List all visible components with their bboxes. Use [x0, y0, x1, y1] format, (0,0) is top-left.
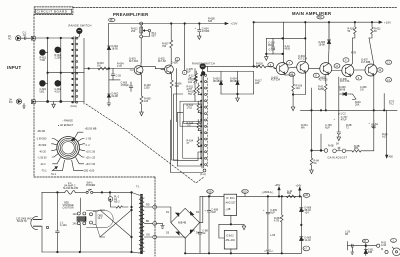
svg-text:890: 890 [287, 192, 292, 195]
svg-text:4.7B: 4.7B [274, 219, 279, 222]
resistor R612 [197, 102, 199, 113]
input jack J1 [16, 36, 21, 41]
zener D609 [300, 237, 304, 241]
spare terminal [46, 226, 48, 228]
AC plug [31, 216, 38, 229]
gate network wire [84, 68, 134, 70]
diode D605 [327, 22, 330, 48]
svg-text:4935: 4935 [285, 47, 291, 50]
zener D602 [107, 69, 110, 97]
svg-text:BK: BK [146, 220, 150, 223]
svg-text:PREAMPLIFIER: PREAMPLIFIER [113, 12, 149, 17]
svg-text:NE-2: NE-2 [114, 200, 120, 203]
meter circuit node 6 [362, 239, 368, 243]
svg-text:14: 14 [387, 79, 390, 82]
svg-text:7.5M: 7.5M [40, 59, 45, 62]
wire mid tie [48, 72, 84, 74]
wire TP1 to Q601 collector [140, 38, 142, 63]
node on board edge [31, 36, 35, 40]
svg-text:18-95: 18-95 [112, 47, 119, 50]
capacitor C601 can [40, 80, 46, 86]
wire input to switch [35, 37, 74, 39]
svg-text:NLP: NLP [270, 211, 275, 214]
resistor R623 [346, 150, 366, 153]
svg-text:9: 9 [358, 77, 360, 80]
circled 12 [377, 68, 383, 72]
svg-text:12: 12 [378, 69, 381, 72]
circled 8 [313, 73, 319, 77]
pilot lamp PL1 [108, 197, 113, 202]
svg-text:+: + [334, 118, 336, 121]
circled 14 [386, 78, 392, 82]
svg-text:RD: RD [146, 204, 150, 207]
switch S601 [351, 94, 356, 100]
svg-text:20K: 20K [355, 103, 360, 106]
selector enclosure [87, 210, 114, 227]
IC601 regulator [224, 194, 237, 215]
svg-text:+18V: +18V [384, 20, 391, 24]
rotary wiper arrow [52, 167, 58, 171]
svg-text:12-02: 12-02 [305, 239, 312, 242]
selector jumper box [90, 213, 93, 216]
circled 10 [289, 72, 295, 76]
svg-text:848: 848 [256, 65, 261, 68]
arrow +18V [379, 21, 382, 23]
shield box 2 [180, 101, 201, 126]
trim pot TP1 top node [140, 22, 143, 25]
svg-text:-4B 4M: -4B 4M [37, 130, 45, 133]
node on board edge [31, 100, 35, 104]
rotary spokes right [78, 139, 85, 142]
transistor Q604 [297, 61, 309, 73]
svg-text:11: 11 [335, 65, 338, 68]
circled 3 [268, 63, 274, 67]
svg-text:47UF: 47UF [341, 118, 347, 121]
capacitor C602 can [55, 80, 61, 86]
circled 2 [343, 58, 349, 62]
ground below C604 [198, 33, 202, 40]
meter M [393, 248, 400, 256]
node T60 circled [317, 15, 324, 19]
svg-text:+7: +7 [304, 248, 307, 251]
svg-text:60B-4B: 60B-4B [178, 222, 187, 225]
transistor Q603 [276, 63, 288, 75]
resistor R618 to Q603 base [256, 65, 276, 69]
svg-text:-1.99 500: -1.99 500 [36, 138, 47, 141]
transformer T1 primary [138, 195, 140, 253]
transformer core [140, 194, 143, 254]
resistor R615 [195, 71, 197, 83]
transistor Q605 [320, 63, 332, 75]
secondary taps [144, 207, 152, 237]
ground Q603 emitter [291, 95, 295, 111]
wire Q604 emitter join [293, 74, 305, 95]
IC602 regulator [224, 230, 237, 249]
svg-text:CAUTION: CAUTION [63, 206, 74, 209]
svg-text:1200: 1200 [144, 86, 150, 89]
capacitor C607 [198, 196, 202, 253]
svg-text:M: M [381, 248, 383, 251]
meter feed wire [348, 245, 377, 247]
wire wafer2 to R618 [205, 65, 256, 67]
svg-text:UB2: UB2 [40, 91, 45, 94]
resistor R613 [197, 120, 199, 131]
wire rail to Q603 collector [283, 22, 285, 63]
svg-text:+20: +20 [242, 190, 247, 193]
svg-text:CN: CN [360, 88, 364, 91]
svg-text:10A: 10A [296, 87, 301, 90]
svg-text:A50: A50 [389, 156, 394, 159]
svg-text:BIAS: BIAS [268, 44, 274, 47]
svg-text:200 +100: 200 +100 [84, 170, 95, 173]
capacitor C710 [372, 120, 376, 128]
node 2 circled [391, 239, 397, 243]
circled 7 [287, 61, 293, 65]
svg-text:2 .2: 2 .2 [86, 144, 91, 147]
node +7 circled [303, 246, 310, 251]
svg-text:R-6B: R-6B [328, 145, 334, 148]
svg-text:-50 600: -50 600 [38, 144, 47, 147]
svg-text:2: 2 [345, 59, 347, 62]
ground bias [265, 54, 269, 61]
+26 rail [200, 195, 301, 197]
capacitor C604 [198, 24, 202, 32]
svg-text:+: + [205, 210, 207, 213]
transistor Q602 [165, 65, 174, 74]
bridge + output riser [200, 196, 203, 222]
bottom AC wire [42, 251, 132, 253]
svg-text:+24: +24 [305, 212, 310, 215]
resistor R625 + ground [310, 151, 314, 174]
divider chain wire [175, 69, 177, 122]
crossover X wires [93, 214, 98, 222]
wire J2 to switch column [35, 101, 84, 103]
resistor R1 lamp [111, 202, 125, 205]
resistor R607 [170, 24, 173, 64]
switch contact column A [74, 37, 75, 104]
node +20 circled [244, 194, 246, 197]
capacitor C603 [129, 82, 133, 92]
bias sub network [266, 38, 305, 54]
switch SW1 POWER [86, 191, 88, 193]
svg-text:C-10A: C-10A [60, 224, 67, 227]
svg-text:1762: 1762 [187, 106, 193, 109]
knob pointer [71, 138, 75, 141]
svg-text:AAC-517: AAC-517 [226, 202, 237, 205]
input jack J2 [16, 99, 21, 104]
svg-text:4B: 4B [345, 233, 348, 236]
resistor R601 can [40, 50, 46, 56]
svg-text:-40 2: -40 2 [40, 163, 46, 166]
switch wafer SW2-A [77, 28, 83, 34]
gain pot terminal circles [324, 149, 328, 153]
svg-text:△A609-A△: △A609-A△ [262, 191, 274, 194]
svg-text:CIRCUIT BOARD: CIRCUIT BOARD [37, 10, 68, 14]
zener column [300, 196, 302, 253]
diode D601 bias [107, 24, 110, 69]
trim pot TP1 [140, 35, 143, 38]
svg-text:98K: 98K [354, 147, 359, 150]
svg-text:1700pF: 1700pF [121, 84, 130, 87]
svg-text:C-03: C-03 [116, 75, 122, 78]
svg-text:△A611△: △A611△ [264, 250, 273, 253]
svg-text:POWER: POWER [86, 184, 95, 187]
wire Q601 to Q602 [141, 66, 165, 68]
rotary spokes left [52, 139, 59, 142]
arrow +20V [225, 22, 228, 24]
resistor R605 [140, 75, 143, 112]
wire vertical C-divider left [47, 38, 49, 102]
svg-text:SLOW-BLOW: SLOW-BLOW [63, 187, 79, 190]
capacitor C609 [266, 196, 270, 253]
bridge - output drop [184, 238, 186, 253]
diode D-M [364, 246, 367, 256]
svg-text:417-134: 417-134 [271, 79, 281, 82]
ladder tie wires [198, 94, 201, 146]
+24V arrow [299, 187, 301, 196]
svg-text:A-52: A-52 [381, 244, 387, 247]
svg-text:IC602: IC602 [226, 234, 234, 238]
svg-text:NLP: NLP [325, 126, 330, 129]
preamp supply rail [109, 23, 228, 25]
svg-text:T6.2: T6.2 [389, 102, 395, 105]
switch contact column B [202, 73, 203, 168]
resistor R614 [197, 137, 199, 147]
svg-text:18-98: 18-98 [319, 43, 326, 46]
transformer T1 secondary [142, 198, 144, 251]
svg-text:+: + [195, 27, 197, 30]
IC601 ground wire [231, 223, 244, 225]
svg-text:+26: +26 [207, 190, 212, 193]
svg-text:+: + [263, 209, 265, 212]
feedback line down to ladder [172, 94, 178, 160]
ground C707 [337, 137, 341, 141]
svg-text:12.7: 12.7 [98, 217, 103, 220]
svg-text:300: 300 [175, 85, 180, 88]
svg-text:C-606: C-606 [171, 62, 178, 65]
svg-text:8: 8 [315, 74, 317, 77]
bridge rectifier D-B1 [171, 208, 200, 238]
circled 9 [356, 76, 362, 80]
voltage selector plug [77, 212, 80, 215]
svg-text:13: 13 [387, 61, 390, 64]
svg-text:2: 2 [393, 239, 395, 242]
rail junction dots [170, 23, 172, 25]
svg-text:25K: 25K [131, 30, 136, 33]
capacitor C707 [337, 110, 341, 137]
svg-text:● AF EFFECT: ● AF EFFECT [58, 124, 74, 127]
svg-text:AC: AC [8, 38, 12, 41]
ground rail bottom [185, 252, 301, 254]
svg-text:470MF: 470MF [202, 30, 210, 33]
svg-text:L-65: L-65 [270, 234, 276, 237]
diode pair loop D603 D604 [208, 66, 254, 71]
svg-text:(C.A): (C.A) [200, 173, 206, 176]
svg-text:INPUT: INPUT [7, 65, 21, 70]
svg-text:+26: +26 [304, 194, 309, 197]
rotary switch SW2 body [57, 137, 80, 160]
svg-text:1 -50: 1 -50 [86, 138, 92, 141]
svg-text:+50.93 MB: +50.93 MB [85, 128, 97, 131]
svg-text:T60: T60 [318, 16, 323, 19]
svg-text:+10 1.50: +10 1.50 [86, 150, 96, 153]
wire top to transformer [110, 192, 132, 252]
circled 11 [334, 64, 340, 68]
svg-text:417-68B: 417-68B [361, 61, 371, 64]
output arrow [386, 110, 388, 158]
IC602 pins [219, 224, 231, 253]
wire Q604 collector up [304, 22, 306, 61]
svg-text:1UF: 1UF [186, 70, 191, 73]
resistor R630 [287, 195, 296, 198]
resistor R621 [369, 22, 373, 38]
wire plug to fuse riser [41, 192, 43, 252]
IC601 pins [230, 216, 232, 225]
+25V arrow [278, 187, 280, 197]
svg-text:+20V: +20V [231, 22, 238, 26]
svg-text:T-1: T-1 [136, 186, 140, 189]
svg-text:98-98: 98-98 [230, 80, 237, 83]
transistor Q607 [365, 64, 377, 76]
svg-text:A5L-404: A5L-404 [226, 239, 236, 242]
switch wafer SW2-B [200, 64, 206, 70]
selector feed [79, 198, 81, 252]
wire 4.7 node [357, 23, 359, 52]
node +26 circled [209, 194, 211, 197]
rotary labels left [36, 130, 47, 172]
svg-text:6A6B: 6A6B [318, 88, 324, 91]
main bottom bus [301, 109, 398, 111]
svg-text:7: 7 [289, 62, 291, 65]
svg-text:D1: D1 [166, 211, 170, 214]
zener D608 [300, 208, 304, 212]
ground Q601 emitter [140, 112, 144, 116]
svg-text:1M: 1M [97, 64, 100, 67]
ground diode loop [236, 94, 240, 102]
capacitor C605 branch [184, 24, 186, 71]
node +26b circled [303, 193, 310, 197]
node T5 circled [109, 18, 115, 21]
svg-text:-1.50 50: -1.50 50 [38, 156, 48, 159]
top AC wire [42, 191, 65, 193]
connector circle [377, 244, 380, 247]
verticals to bus [312, 76, 387, 110]
capacitor C2 line filter [56, 192, 60, 252]
svg-text:4.5U: 4.5U [55, 91, 60, 94]
node CA0 [203, 169, 206, 172]
capacitor C-103 [111, 69, 114, 80]
svg-text:SET: SET [151, 34, 156, 37]
svg-text:C-104: C-104 [269, 48, 276, 51]
svg-text:240: 240 [73, 223, 78, 226]
svg-text:RANGE SWITCH: RANGE SWITCH [69, 24, 92, 28]
svg-text:+63 7.00: +63 7.00 [86, 163, 96, 166]
svg-text:+20 +.20: +20 +.20 [86, 156, 96, 159]
svg-text:2.25M: 2.25M [55, 57, 62, 60]
svg-text:5A: 5A [336, 143, 339, 146]
svg-text:98-98: 98-98 [213, 80, 220, 83]
AC to bridge [157, 207, 171, 223]
rail drop to base wire [253, 22, 255, 66]
svg-text:D3: D3 [166, 232, 170, 235]
resistor R634 [280, 196, 283, 253]
svg-text:417-235: 417-235 [319, 79, 329, 82]
rotary labels right [84, 128, 97, 173]
svg-text:GAIN ADJUST: GAIN ADJUST [328, 156, 348, 160]
svg-text:A17: A17 [382, 135, 387, 138]
wire vertical C-divider right [60, 38, 62, 102]
svg-text:6F7-68: 6F7-68 [158, 60, 166, 63]
svg-text:417-T3A: 417-T3A [340, 80, 350, 83]
transistor Q601 [134, 66, 143, 75]
svg-text:6F7-602: 6F7-602 [129, 60, 139, 63]
emitter resistor R619 [285, 75, 294, 95]
shield box 3 [183, 122, 201, 159]
svg-text:+25V: +25V [275, 184, 281, 187]
connector pins on board edge [153, 205, 157, 209]
ground at J2 [23, 104, 26, 109]
capacitor C608 [207, 196, 211, 253]
circled 13 [386, 60, 392, 64]
svg-text:18K: 18K [255, 82, 260, 85]
transistor Q606 [342, 65, 354, 77]
svg-text:MA: MA [301, 126, 305, 129]
resistor R603 [98, 67, 108, 70]
svg-text:790: 790 [162, 45, 167, 48]
svg-text:-40 20: -40 20 [39, 150, 47, 153]
svg-text:4.7K: 4.7K [117, 65, 122, 68]
svg-text:62-98: 62-98 [112, 95, 119, 98]
center tap ground [157, 223, 165, 228]
svg-text:49B: 49B [368, 251, 373, 254]
svg-text:TA-1: TA-1 [51, 173, 57, 176]
svg-text:100: 100 [144, 100, 149, 103]
capacitor C606 [175, 58, 179, 62]
svg-text:IC 601: IC 601 [226, 196, 235, 200]
svg-text:MAIN AMPLIFIER: MAIN AMPLIFIER [292, 11, 332, 16]
svg-text:(CAL): (CAL) [71, 105, 78, 108]
resistor R602 can [55, 47, 61, 53]
capacitor C-1 meter [351, 244, 354, 254]
resistor R620 [353, 22, 357, 38]
svg-text:5A: 5A [314, 162, 317, 165]
svg-text:○ RANGE: ○ RANGE [62, 120, 73, 123]
svg-text:120: 120 [73, 213, 78, 216]
svg-text:D2: D2 [196, 211, 200, 214]
resistor R606 [170, 75, 173, 94]
gain adjust row [311, 110, 313, 150]
svg-text:4.7B: 4.7B [351, 52, 356, 55]
resistor R611 [197, 83, 199, 94]
switch linkage dashed diagonal [86, 104, 205, 183]
svg-text:50-60 Hz: 50-60 Hz [17, 220, 28, 223]
svg-text:-70 1: -70 1 [41, 170, 47, 173]
svg-text:226: 226 [187, 124, 192, 127]
ground col1 [52, 102, 56, 108]
svg-text:144: 144 [188, 81, 193, 84]
shield box 1 [184, 104, 202, 123]
resistors to supply R609/R610 [194, 69, 197, 102]
svg-text:752: 752 [188, 93, 193, 96]
main amp supply rail [254, 21, 379, 23]
svg-text:+24V: +24V [296, 185, 302, 188]
svg-text:417-134: 417-134 [298, 57, 308, 60]
svg-text:GN: GN [146, 234, 150, 237]
svg-text:630: 630 [208, 20, 213, 23]
diode D606 [339, 77, 351, 96]
svg-text:NLP: NLP [211, 211, 216, 214]
svg-text:DC: DC [9, 101, 13, 104]
